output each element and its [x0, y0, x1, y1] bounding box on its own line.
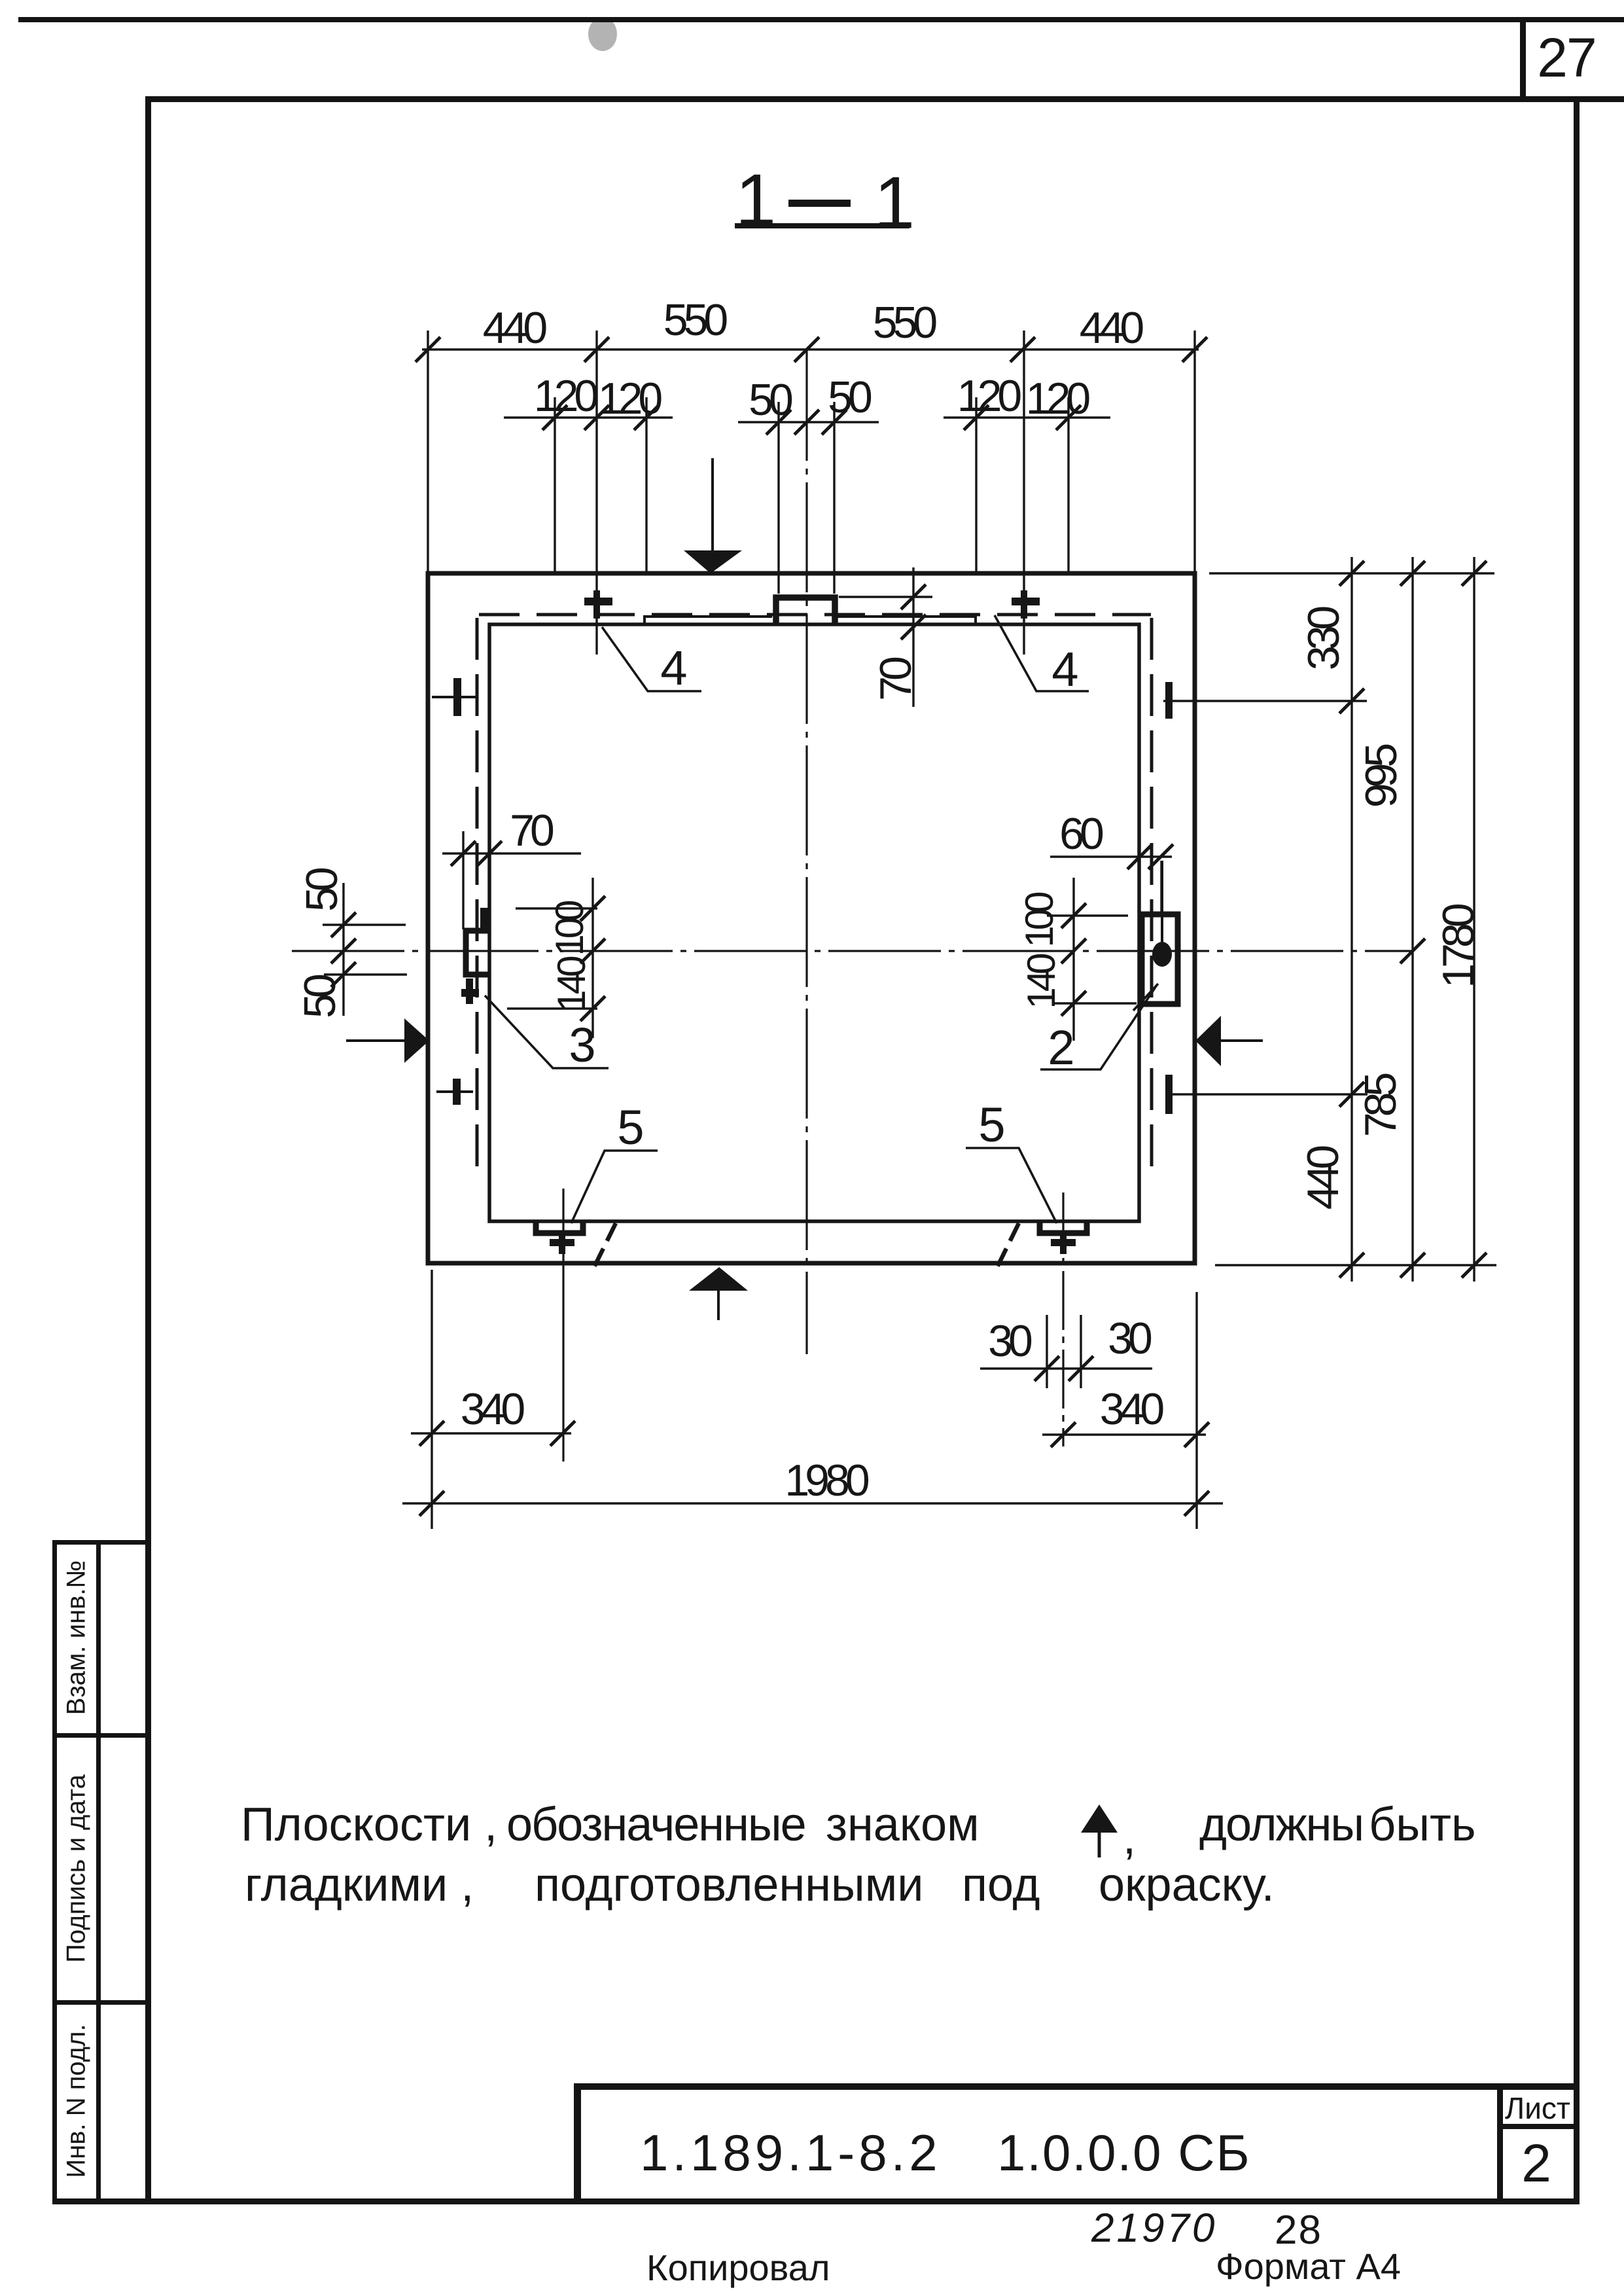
tick: [1010, 337, 1035, 362]
leader item 3: [485, 996, 609, 1068]
tick: [1056, 405, 1081, 430]
scan smudge top center: [588, 17, 617, 51]
right dims vertical line 1780: [1473, 557, 1475, 1282]
svg-text:1780: 1780: [1434, 904, 1483, 988]
leader item 2: [1040, 985, 1157, 1069]
extension line: [1080, 1315, 1082, 1388]
bottom extension right: [1195, 1292, 1197, 1529]
embed mark cross top left: [584, 590, 612, 619]
svg-text:120: 120: [957, 371, 1021, 421]
stamp row divider 2: [52, 2000, 149, 2005]
right dims vertical line 330-440: [1350, 557, 1352, 1282]
left dim 50 50 vertical line: [342, 883, 344, 1016]
horizontal centerline axis: [292, 950, 1413, 952]
anchor item 5 right cross: [1051, 1235, 1076, 1254]
extension line: [462, 831, 464, 929]
note surface finish symbol: [1081, 1804, 1118, 1857]
svg-text:27: 27: [1537, 27, 1595, 88]
frame top line: [145, 96, 1624, 102]
svg-text:гладкими ,: гладкими ,: [245, 1859, 474, 1911]
anchor box item 2 in right wall: [1142, 914, 1178, 1004]
dashed hidden line top: [479, 613, 1151, 617]
tick: [584, 337, 609, 362]
tick: [1051, 1422, 1076, 1447]
bolt hanger line inside item 2: [1161, 861, 1163, 942]
tick: [580, 939, 605, 963]
right dim 100 140 vertical line: [1072, 878, 1074, 1041]
svg-text:140: 140: [550, 956, 593, 1012]
tick: [1400, 1253, 1425, 1278]
sub dimension line 120 120 right: [944, 416, 1110, 418]
bolt blob inside item 2: [1152, 942, 1172, 967]
tick: [1339, 689, 1364, 713]
extension line to notch right: [833, 402, 835, 594]
tick: [1034, 1356, 1059, 1381]
extension line left end: [427, 331, 429, 573]
svg-text:21970: 21970: [1091, 2206, 1217, 2251]
section title underline: [735, 223, 909, 228]
left wall dim 70 line: [442, 852, 581, 854]
svg-text:Взам. инв.№: Взам. инв.№: [62, 1560, 91, 1715]
svg-text:440: 440: [483, 303, 547, 353]
anchor item 5 right channel: [1040, 1221, 1087, 1233]
tick: [1339, 1253, 1364, 1278]
right extension at 330 level: [1163, 700, 1367, 702]
tick: [415, 337, 440, 362]
sub dimension line 120 120 left: [504, 416, 673, 418]
svg-text:4: 4: [660, 641, 686, 695]
svg-text:785: 785: [1356, 1074, 1405, 1138]
notch dim 70 vertical line: [912, 567, 914, 707]
tick: [964, 405, 989, 430]
svg-text:Лист: Лист: [1505, 2091, 1570, 2125]
leader item 4 left: [602, 627, 701, 691]
svg-text:,: ,: [1123, 1812, 1136, 1864]
tick: [331, 939, 356, 963]
tick: [584, 405, 609, 430]
tick: [419, 1491, 444, 1516]
tick: [1400, 561, 1425, 586]
right extension at 785 level: [1171, 1093, 1368, 1095]
svg-text:30: 30: [988, 1316, 1032, 1366]
embed mark left wall upper: [432, 678, 477, 716]
anchor item 5 left axis line: [562, 1189, 564, 1462]
svg-text:знаком: знаком: [826, 1799, 980, 1851]
svg-text:120: 120: [1026, 374, 1090, 423]
right dims bottom extension: [1215, 1264, 1496, 1266]
tick: [1148, 844, 1173, 869]
title block left line: [574, 2083, 581, 2202]
tick: [1061, 903, 1086, 928]
dashed slant bottom right: [997, 1223, 1019, 1267]
embedded plate 4 right: [836, 617, 976, 625]
tick: [901, 615, 926, 639]
tick: [419, 1421, 444, 1446]
vertical centerline axis: [805, 351, 807, 1354]
tick: [1400, 939, 1425, 963]
extension line right end: [1193, 331, 1195, 573]
svg-text:70: 70: [871, 657, 921, 701]
extension line: [645, 397, 647, 573]
dashed hidden line left: [476, 618, 479, 1178]
extension line: [1067, 397, 1069, 573]
svg-text:1.189.1-8.2: 1.189.1-8.2: [640, 2124, 942, 2181]
tick: [1184, 1491, 1209, 1516]
svg-text:2: 2: [1521, 2134, 1551, 2193]
anchor item 5 left channel: [536, 1221, 583, 1233]
bottom dim 340 right line: [1042, 1433, 1206, 1435]
leader item 5 left: [571, 1151, 658, 1223]
anchor item 5 right axis line: [1062, 1193, 1064, 1446]
left 100 extension: [516, 907, 597, 909]
svg-text:1.0.0.0 СБ: 1.0.0.0 СБ: [997, 2124, 1251, 2181]
tick: [1184, 1422, 1209, 1447]
tick: [634, 405, 659, 430]
anchor item 5 left cross: [550, 1235, 574, 1254]
tick: [1339, 1082, 1364, 1107]
svg-text:3: 3: [569, 1018, 593, 1072]
svg-text:50: 50: [295, 975, 345, 1018]
dashed hidden line right: [1150, 618, 1154, 1179]
section title 1 - 1: [735, 159, 915, 243]
svg-text:140: 140: [1019, 954, 1063, 1009]
bottom dim 30 30 line: [980, 1367, 1152, 1369]
tick: [794, 337, 819, 362]
left dim 100 140 vertical line: [591, 878, 593, 1038]
tick: [1462, 1253, 1487, 1278]
frame right line: [1574, 96, 1580, 2204]
svg-text:340: 340: [461, 1384, 525, 1434]
left 140 extension: [507, 1007, 597, 1009]
svg-text:5: 5: [978, 1098, 1004, 1152]
svg-text:1: 1: [735, 159, 776, 241]
svg-text:под: под: [962, 1859, 1040, 1911]
svg-text:50: 50: [297, 868, 347, 912]
embed mark cross top right: [1012, 590, 1040, 619]
embed mark right wall lower: [1165, 1075, 1173, 1114]
tick: [822, 410, 847, 435]
svg-text:окраску.: окраску.: [1099, 1859, 1275, 1911]
finish arrow top pointing down: [684, 458, 742, 573]
tick: [1339, 561, 1364, 586]
svg-text:70: 70: [510, 806, 554, 855]
svg-text:4: 4: [1051, 642, 1077, 696]
small cross below item 3: [461, 978, 479, 1004]
tick: [331, 912, 356, 937]
svg-text:должны: должны: [1199, 1799, 1363, 1851]
svg-text:Плоскости ,: Плоскости ,: [241, 1799, 497, 1851]
title block top line: [574, 2083, 1580, 2090]
extension line: [1160, 861, 1162, 913]
svg-text:обозначенные: обозначенные: [506, 1799, 805, 1851]
tick: [331, 962, 356, 987]
finish arrow right pointing left: [1195, 1016, 1263, 1066]
extension line: [1046, 1315, 1048, 1388]
lifting notch on top wall: [776, 598, 835, 626]
svg-text:550: 550: [873, 298, 937, 348]
tick: [1061, 991, 1086, 1016]
tick: [794, 410, 819, 435]
embed mark right wall upper: [1165, 682, 1173, 719]
svg-text:60: 60: [1059, 809, 1103, 859]
extension line wall axis left: [595, 331, 597, 655]
bottom dim 1980 line: [402, 1502, 1223, 1504]
bottom dim 340 left line: [411, 1432, 571, 1434]
svg-text:440: 440: [1080, 303, 1144, 353]
tick: [580, 896, 605, 921]
tick: [1068, 1356, 1093, 1381]
right wall dim 60 line: [1050, 855, 1172, 857]
right dims vertical line 995-785: [1411, 557, 1413, 1282]
svg-text:100: 100: [548, 901, 591, 956]
svg-text:быть: быть: [1369, 1799, 1475, 1851]
sub dimension line 50 50 center: [738, 421, 879, 423]
page number box divider: [1520, 20, 1526, 101]
tick: [550, 1421, 575, 1446]
svg-text:120: 120: [534, 371, 598, 421]
tick: [1462, 561, 1487, 586]
stamp column outer left line: [52, 1540, 57, 2202]
embed mark left wall lower: [436, 1079, 473, 1105]
svg-text:Инв. N подл.: Инв. N подл.: [62, 2024, 91, 2178]
svg-text:50: 50: [749, 375, 792, 425]
left dim 50 upper extension: [323, 924, 406, 925]
svg-text:5: 5: [617, 1100, 643, 1155]
stamp column top line: [52, 1540, 149, 1545]
inner square of shaft section: [489, 624, 1139, 1221]
tick: [1061, 939, 1086, 963]
leader item 4 right: [995, 615, 1089, 691]
extension line: [554, 397, 556, 573]
tick: [1182, 337, 1207, 362]
finish arrow bottom pointing up: [689, 1267, 748, 1320]
tick: [901, 584, 926, 609]
channel bracket item 3 in left wall: [466, 931, 489, 975]
notch dim extension: [839, 596, 932, 598]
leader item 2 end slash: [1133, 984, 1158, 1011]
extension line to notch left: [777, 402, 779, 594]
right 100 extension: [1047, 914, 1128, 916]
frame left line: [145, 96, 151, 2204]
outer square of shaft section: [428, 573, 1195, 1263]
tick: [542, 405, 567, 430]
svg-text:440: 440: [1298, 1146, 1348, 1210]
leader item 5 right: [966, 1148, 1057, 1223]
extension line: [975, 397, 977, 573]
right dims top extension: [1209, 572, 1494, 574]
svg-text:30: 30: [1108, 1314, 1152, 1363]
tick: [477, 841, 502, 866]
svg-text:1: 1: [874, 162, 915, 243]
top main dimension line 440+550+550+440: [422, 348, 1199, 350]
tick: [766, 410, 791, 435]
svg-text:100: 100: [1017, 892, 1061, 948]
tick: [580, 996, 605, 1021]
bracket stub above item 3: [480, 908, 489, 928]
tick: [1127, 844, 1152, 869]
bottom extension left: [431, 1270, 432, 1529]
section title dash: [788, 200, 851, 207]
svg-text:Формат А4: Формат А4: [1216, 2246, 1401, 2287]
svg-text:995: 995: [1356, 745, 1406, 808]
top rule across page: [18, 17, 1624, 22]
svg-text:1980: 1980: [785, 1456, 868, 1505]
svg-text:подготовленными: подготовленными: [535, 1859, 923, 1911]
title block sheet box divider vertical: [1497, 2083, 1503, 2202]
finish arrow left pointing right: [346, 1018, 429, 1063]
tick: [451, 841, 476, 866]
embedded plate 4 left: [644, 617, 772, 625]
svg-text:2: 2: [1048, 1020, 1072, 1075]
svg-text:Подпись и дата: Подпись и дата: [62, 1774, 91, 1962]
stamp row divider 1: [52, 1733, 149, 1738]
svg-text:330: 330: [1299, 607, 1349, 671]
right 140 extension: [1054, 1002, 1137, 1004]
svg-text:Копировал: Копировал: [646, 2247, 830, 2288]
dashed slant bottom left: [594, 1223, 616, 1267]
svg-text:120: 120: [598, 374, 662, 423]
title block sheet box divider horizontal: [1497, 2124, 1580, 2129]
frame bottom line: [52, 2198, 1580, 2204]
extension line wall axis right: [1023, 331, 1025, 655]
svg-text:340: 340: [1100, 1384, 1164, 1434]
stamp column inner divider line: [96, 1540, 101, 2202]
left dim 50 lower extension: [324, 973, 407, 975]
svg-text:550: 550: [663, 295, 728, 345]
